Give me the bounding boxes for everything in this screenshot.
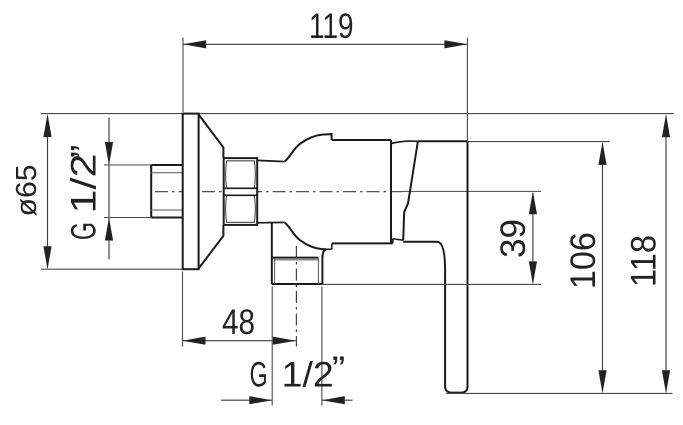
svg-text:1/2: 1/2 — [282, 356, 334, 395]
svg-text:”: ” — [65, 145, 104, 159]
outlet centerline (dash-dot vertical) — [295, 246, 297, 336]
svg-text:119: 119 — [309, 7, 354, 46]
dimension G 1/2 left line — [108, 118, 110, 260]
svg-text:G: G — [250, 356, 268, 395]
dimension 119 arrow right — [444, 40, 467, 48]
svg-text:1/2: 1/2 — [65, 154, 104, 214]
dimension 48 arrow right — [273, 337, 296, 345]
cartridge sleeve — [332, 140, 393, 243]
cap front slant edge — [403, 141, 418, 240]
cap bottom slope — [393, 239, 404, 240]
svg-text:39: 39 — [494, 219, 533, 258]
dimension 106/118 bottom extension line — [446, 392, 673, 394]
extension line top (flange top plane, shared by dim 119 / 118) — [41, 113, 674, 115]
dimension 106 arrow up — [598, 142, 606, 165]
dimension o65 arrow up — [43, 114, 51, 137]
dimension 39 arrow up — [529, 191, 537, 214]
dimension 118 line — [665, 116, 667, 392]
dimension 48 extension line — [182, 272, 184, 347]
bell body top profile — [285, 134, 332, 161]
main centerline (dash-dot) — [155, 191, 402, 193]
dimension o65 arrow down — [43, 246, 51, 269]
bell bottom-right corner lines — [326, 243, 332, 249]
dimension 48 line — [183, 340, 296, 342]
connector between nut and bell — [257, 160, 285, 222]
dimension o65 line — [47, 116, 49, 268]
bottom outlet pipe — [272, 222, 323, 284]
G 1/2 left arrow up — [105, 218, 113, 241]
centerline solid extension toward dim 39 — [402, 190, 541, 192]
svg-text:ø65: ø65 — [11, 165, 43, 217]
dimension 48 arrow left — [183, 337, 206, 345]
dimension 39 bottom extension line — [323, 283, 541, 285]
lever handle — [418, 140, 467, 142]
G 1/2 left arrow down — [105, 142, 113, 165]
bell body bottom profile — [285, 223, 326, 258]
cone behind nut (bottom) — [199, 225, 224, 269]
wall pipe thread root lines — [151, 173, 183, 210]
dimension 39 arrow down — [529, 261, 537, 284]
hex nut — [224, 158, 258, 225]
dimension 106 top extension line — [468, 141, 610, 143]
svg-text:118: 118 — [624, 235, 663, 287]
svg-text:48: 48 — [222, 303, 255, 342]
outlet thread root lines — [275, 258, 319, 284]
dimension 106 line — [602, 144, 604, 392]
dimension G 1/2 bottom lines — [221, 399, 353, 401]
G 1/2 bottom extension lines — [272, 287, 322, 406]
flange (escutcheon plate) — [183, 114, 199, 270]
dimension 118 arrow down — [662, 370, 670, 393]
cap (lever base) — [391, 141, 418, 143]
outlet thread shoulder — [272, 257, 319, 259]
cone behind nut (top) — [199, 115, 224, 159]
svg-text:106: 106 — [564, 232, 603, 289]
G 1/2 bottom arrow right-pointing — [249, 396, 272, 404]
svg-text:G: G — [65, 222, 104, 240]
dimension 119 line — [183, 43, 467, 45]
extension line flange bottom (dim o65) — [41, 268, 183, 270]
dimension 118 arrow up — [662, 114, 670, 137]
wall pipe (inlet nipple) — [151, 165, 183, 218]
G 1/2 bottom arrow left-pointing — [322, 396, 345, 404]
G 1/2 left extension lines — [104, 165, 151, 218]
dimension 39 line — [532, 193, 534, 283]
svg-text:”: ” — [332, 350, 346, 389]
dimension 119 extension lines — [183, 38, 467, 142]
dimension 119 arrow left — [183, 40, 206, 48]
dimension 106 arrow down — [598, 370, 606, 393]
